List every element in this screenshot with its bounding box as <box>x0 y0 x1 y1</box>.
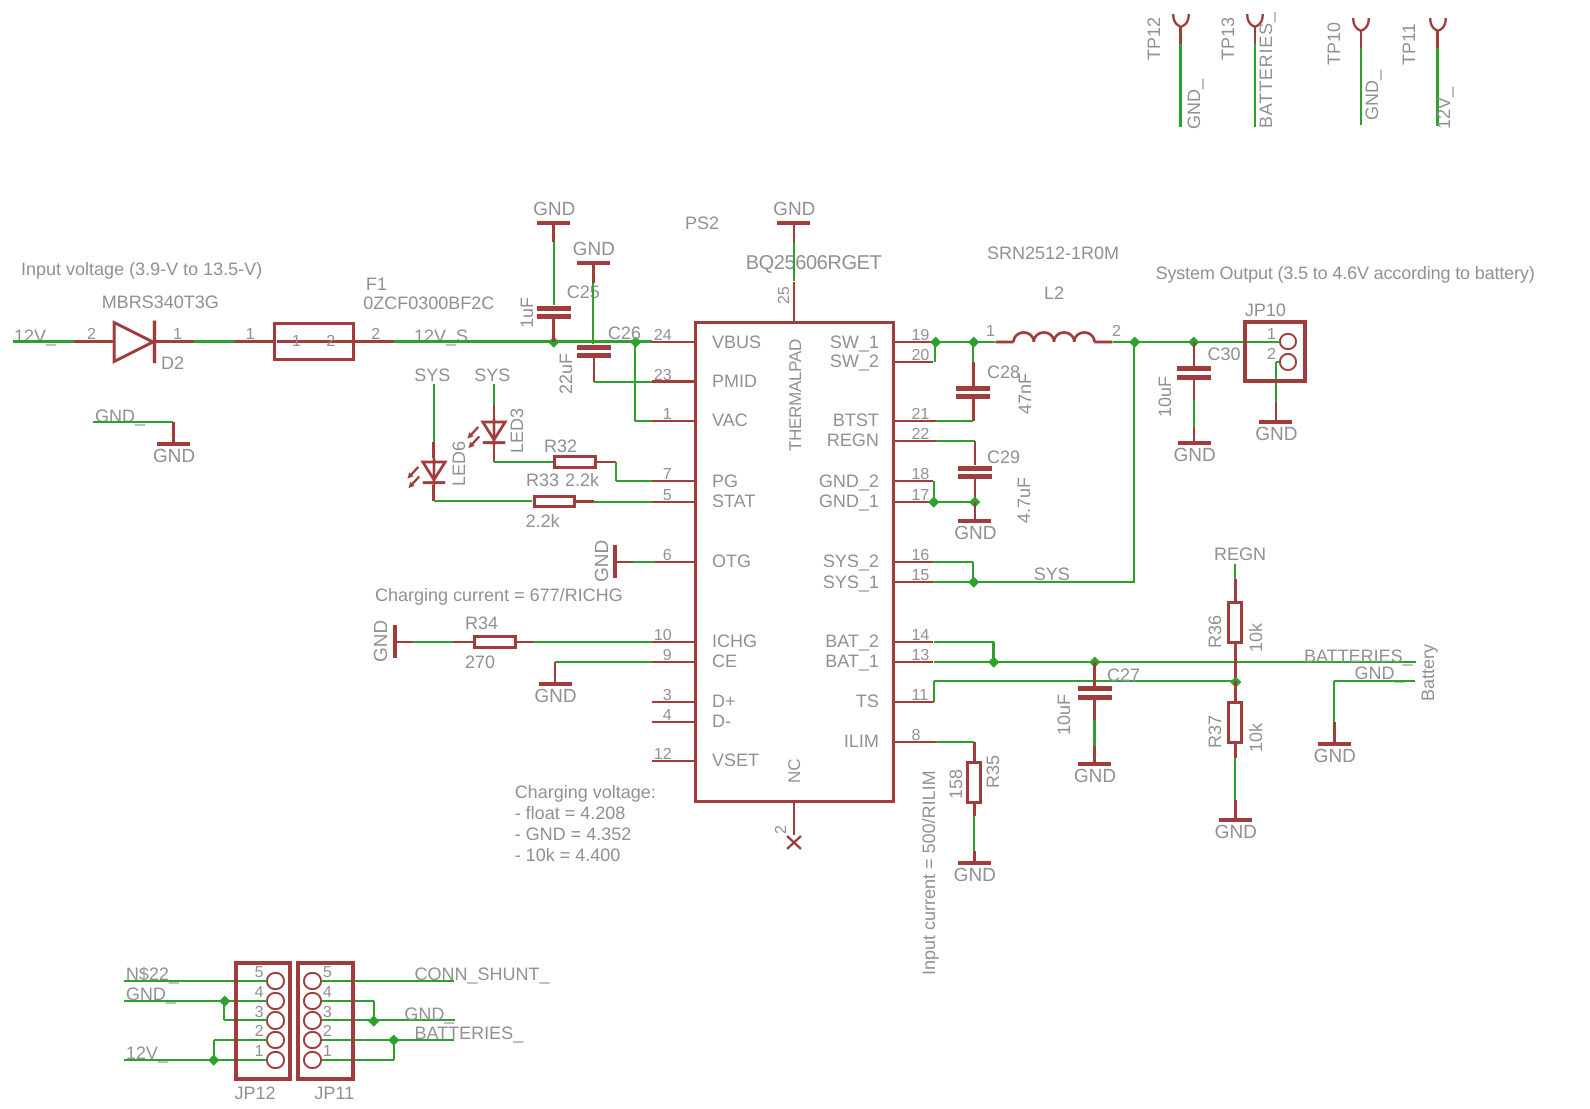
wire <box>13 340 74 342</box>
wire <box>434 500 533 502</box>
pin number 20 <box>912 348 930 364</box>
junction <box>929 497 940 508</box>
wire pin 3 stub <box>652 701 694 704</box>
wire PG <box>616 480 652 482</box>
pin number 8 <box>912 728 921 744</box>
pin name PG <box>712 472 738 490</box>
label R32 <box>544 437 577 455</box>
label C29 <box>987 448 1020 466</box>
resistor R36 <box>1227 601 1243 644</box>
pin name GND_1 <box>819 492 879 510</box>
pin number 12 <box>654 747 672 763</box>
wire <box>973 341 995 343</box>
net label N$22_ <box>126 965 179 983</box>
wire 12V_S rail <box>394 340 652 342</box>
junction <box>389 1035 400 1046</box>
pin number 7 <box>663 467 672 483</box>
wire N$22_ <box>124 980 268 982</box>
pin 2 of JP11 <box>323 1024 332 1040</box>
wire <box>1333 681 1335 722</box>
wire <box>224 1019 267 1021</box>
wire <box>934 641 994 643</box>
wire <box>1275 362 1277 402</box>
wire pin 24 stub <box>652 341 694 344</box>
wire <box>1093 662 1096 686</box>
wire VAC riser <box>634 342 636 421</box>
pin name PMID <box>712 372 757 390</box>
wire <box>235 340 273 343</box>
label PS2 <box>685 214 719 232</box>
wire <box>793 242 795 282</box>
wire CE <box>555 661 652 663</box>
pin number 22 <box>912 427 930 443</box>
value 270 <box>465 653 495 671</box>
wire pin 4 stub <box>652 721 694 724</box>
label JP12 <box>235 1084 276 1102</box>
net label SYS <box>474 366 510 384</box>
net label REGN <box>1214 545 1266 563</box>
label L2 <box>1044 284 1064 302</box>
wire GND_ <box>374 1019 456 1021</box>
wire <box>1194 341 1279 343</box>
wire <box>493 384 495 405</box>
connector JP11 body <box>296 961 355 1081</box>
wire <box>1254 44 1256 128</box>
wire <box>1093 700 1096 721</box>
no-connect X <box>785 834 803 851</box>
wire pin 13 stub <box>895 661 934 664</box>
wire pin 21 stub <box>895 420 937 423</box>
wire <box>1234 579 1237 601</box>
wire <box>933 561 973 563</box>
pin 4 of JP12 <box>255 985 264 1001</box>
ground (inverted) at pin 25 <box>777 221 810 225</box>
wire <box>633 561 655 563</box>
ground <box>1333 722 1336 742</box>
wire pin 6 stub <box>655 561 694 564</box>
resistor R35 <box>966 761 982 804</box>
net label BATTERIES_ <box>1304 647 1413 665</box>
wire <box>992 642 994 662</box>
wire SYS riser <box>1133 342 1135 582</box>
ground <box>974 502 977 519</box>
note input current (rotated) <box>920 770 938 975</box>
pin number 18 <box>912 467 930 483</box>
pin number 9 <box>663 648 672 664</box>
note input voltage <box>21 260 262 278</box>
wire ICHG <box>534 641 652 643</box>
junction <box>988 656 999 667</box>
junction <box>968 577 979 588</box>
pin number 2 (rotated) <box>774 825 790 834</box>
label R33 <box>526 471 559 489</box>
ground <box>172 422 175 442</box>
wire pin 7 stub <box>652 480 694 483</box>
pin number 3 <box>663 688 672 704</box>
value 0ZCF0300BF2C <box>363 294 494 312</box>
value 2.2k <box>526 512 560 530</box>
wire <box>1436 48 1438 127</box>
note charging voltage <box>515 783 656 801</box>
capacitor C28 <box>956 386 990 391</box>
junction <box>1089 656 1100 667</box>
wire <box>973 742 976 761</box>
junction <box>1129 337 1140 348</box>
wire <box>933 481 935 502</box>
pin 1 of L2 <box>986 324 995 340</box>
wire <box>494 461 553 463</box>
label D2 <box>161 354 184 372</box>
wire pin 16 stub <box>895 561 934 564</box>
label R35 (rotated) <box>984 755 1002 788</box>
value 22uF (rotated) <box>557 353 575 394</box>
pin name TS <box>856 692 879 710</box>
resistor R34 <box>473 635 517 649</box>
wire TS <box>934 680 1236 682</box>
wire <box>433 384 435 442</box>
wire pin 25 stub <box>793 282 796 322</box>
wire <box>373 1001 375 1021</box>
net label GND_ <box>1355 664 1405 682</box>
pin number 21 <box>912 407 930 423</box>
pin name CE <box>712 652 737 670</box>
label NC (rotated) <box>786 758 803 783</box>
net label BATTERIES_ <box>415 1024 524 1042</box>
pin name BTST <box>833 411 879 429</box>
pin 2 label inside F1 <box>326 334 335 350</box>
net label GND_ <box>404 1005 454 1023</box>
wire <box>1095 661 1416 663</box>
pin name OTG <box>712 552 751 570</box>
label TP10 <box>1325 21 1343 64</box>
wire pin 5 stub <box>652 501 694 504</box>
wire <box>355 340 394 343</box>
wire pin 1 stub <box>652 420 694 423</box>
value 158 (rotated) <box>947 769 965 799</box>
junction <box>1189 337 1200 348</box>
wire <box>635 420 651 422</box>
capacitor C26 <box>577 345 611 350</box>
pin name REGN <box>827 431 879 449</box>
pin name D- <box>712 712 731 730</box>
wire pin 10 stub <box>652 641 694 644</box>
wire <box>597 461 616 464</box>
pin number 24 <box>654 328 672 344</box>
label LED3 (rotated) <box>508 407 526 452</box>
pin 1 of D2 <box>173 327 182 343</box>
testpoint TP12 <box>1171 13 1191 29</box>
junction <box>970 497 981 508</box>
wire <box>156 340 194 343</box>
label Battery (rotated) <box>1419 643 1437 700</box>
wire <box>936 341 973 343</box>
pin 3 of JP11 <box>323 1005 332 1021</box>
label C28 <box>987 363 1020 381</box>
wire <box>322 1019 374 1021</box>
pin number 17 <box>912 488 930 504</box>
pin number 25 (rotated) <box>777 286 793 304</box>
pin number 1 <box>663 407 672 423</box>
wire <box>972 362 975 386</box>
wire SYS <box>933 581 1135 583</box>
wire <box>593 358 596 382</box>
op-amp U1: IC PS2 BQ25606RGET body <box>694 321 895 803</box>
pin number 23 <box>654 368 672 384</box>
value SRN2512-1R0M <box>987 244 1119 262</box>
pin 3 of JP12 <box>255 1005 264 1021</box>
pin 1 of JP10 <box>1267 327 1276 343</box>
wire <box>194 340 235 342</box>
value 10uF (rotated) <box>1156 375 1174 416</box>
wire <box>974 479 977 502</box>
pin name STAT <box>712 492 755 510</box>
wire <box>413 641 453 643</box>
pin name VAC <box>712 411 748 429</box>
value 47nF (rotated) <box>1016 373 1034 414</box>
pin 2 of F1 <box>371 327 380 343</box>
wire <box>576 500 594 503</box>
capacitor C29 <box>958 466 992 471</box>
net label SYS <box>1034 565 1070 583</box>
junction <box>968 337 979 348</box>
testpoint TP13 <box>1245 13 1265 29</box>
wire <box>1134 341 1194 343</box>
wire <box>1179 44 1181 128</box>
resistor R33 <box>533 495 577 509</box>
ground (sideways) <box>393 625 397 658</box>
wire pin 15 stub <box>895 581 934 584</box>
ground <box>554 662 557 682</box>
value 1uF (rotated) <box>518 297 536 328</box>
pin 2 of JP12 <box>255 1024 264 1040</box>
wire <box>432 485 435 502</box>
wire <box>934 342 936 362</box>
pin 1 of JP11 <box>323 1044 332 1060</box>
note system output <box>1156 264 1535 282</box>
ground (inverted) <box>577 261 610 265</box>
wire <box>974 441 977 466</box>
pin name SYS_1 <box>823 573 879 591</box>
wire <box>74 340 114 343</box>
pin name SW_1 <box>830 333 879 351</box>
net label 12V_S <box>414 327 468 345</box>
wire pin 19 stub <box>895 341 937 344</box>
net label 12V_ <box>126 1044 168 1062</box>
pin 1 of JP12 <box>255 1044 264 1060</box>
pin name BAT_2 <box>825 632 879 650</box>
wire <box>93 421 174 423</box>
ground <box>1093 746 1096 762</box>
LED LED6 <box>406 458 450 494</box>
wire <box>213 1040 215 1060</box>
capacitor C30 <box>1177 366 1211 371</box>
junction <box>219 995 230 1006</box>
pin 1 of F1 <box>246 327 255 343</box>
wire 12V_ <box>124 1059 268 1061</box>
net label GND_ <box>95 407 145 425</box>
net label 12V_ <box>1435 87 1453 129</box>
connector JP10 body <box>1243 320 1307 383</box>
ground (sideways) <box>613 545 617 578</box>
wire <box>973 804 976 816</box>
junction <box>630 336 641 347</box>
diode D2 <box>112 318 158 366</box>
pin name ILIM <box>844 732 879 750</box>
wire <box>322 1039 394 1041</box>
label R37 (rotated) <box>1206 715 1224 748</box>
pin name BAT_1 <box>825 652 879 670</box>
wire <box>1113 341 1134 343</box>
label TP11 <box>1400 23 1418 65</box>
wire <box>1234 681 1237 701</box>
wire <box>933 681 935 702</box>
wire pin 17 stub <box>895 501 930 504</box>
pin number 19 <box>912 328 930 344</box>
wire pin 14 stub <box>895 641 934 644</box>
pin number 10 <box>654 628 672 644</box>
wire pin 8 stub <box>895 741 937 744</box>
label C25 <box>567 283 600 301</box>
wire pin 18 stub <box>895 480 934 483</box>
wire <box>615 462 617 481</box>
ground <box>973 851 976 861</box>
net label SYS <box>414 366 450 384</box>
label R34 <box>465 614 498 632</box>
pin 2 of JP10 <box>1267 347 1276 363</box>
pin 2 of L2 <box>1112 324 1121 340</box>
wire <box>322 1000 374 1002</box>
wire <box>553 242 555 306</box>
label LED6 (rotated) <box>450 440 468 485</box>
ground <box>1275 402 1278 420</box>
label JP11 <box>314 1084 354 1102</box>
wire <box>517 641 535 644</box>
wire <box>617 561 633 564</box>
wire PMID <box>594 381 652 383</box>
resistor R32 <box>553 455 597 469</box>
wire <box>973 816 975 851</box>
fuse F1 <box>273 322 355 362</box>
junction <box>209 1054 220 1065</box>
wire GND_ <box>124 1000 268 1002</box>
wire GND_ <box>1334 680 1415 682</box>
pin name SYS_2 <box>823 552 879 570</box>
resistor R37 <box>1227 701 1243 744</box>
label C26 <box>608 324 641 342</box>
wire CONN_SHUNT_ <box>322 980 453 982</box>
junction <box>1230 676 1241 687</box>
pin number 14 <box>912 628 930 644</box>
note charging current <box>375 586 623 604</box>
net label GND_ <box>1185 79 1203 129</box>
label JP10 <box>1245 301 1286 319</box>
label MBRS340T3G <box>102 293 219 311</box>
wire BATTERIES_ <box>394 1039 453 1041</box>
pin name ICHG <box>712 632 757 650</box>
testpoint TP11 <box>1428 17 1448 33</box>
pin 5 of JP11 <box>323 965 332 981</box>
pin number 6 <box>663 548 672 564</box>
net label GND_ <box>126 985 176 1003</box>
wire <box>1234 744 1237 758</box>
pin name VBUS <box>712 333 761 351</box>
LED LED3 <box>466 418 510 454</box>
pin 2 of D2 <box>87 327 96 343</box>
wire <box>1234 564 1236 579</box>
wire BATTERIES_ <box>934 661 1095 663</box>
pin number 11 <box>912 688 929 704</box>
wire <box>972 399 975 421</box>
wire BTST <box>936 420 973 422</box>
pin number 15 <box>912 568 930 584</box>
label R36 (rotated) <box>1206 615 1224 648</box>
wire pin 9 stub <box>652 661 694 664</box>
wire <box>1234 758 1236 800</box>
wire <box>493 445 496 462</box>
wire <box>1193 380 1196 400</box>
net label GND_ <box>1363 69 1381 119</box>
connector JP12 body <box>234 961 293 1081</box>
value 2.2k <box>565 471 599 489</box>
wire <box>1193 400 1195 427</box>
wire pin 22 stub <box>895 440 937 443</box>
net label CONN_SHUNT_ <box>415 965 550 983</box>
pin name GND_2 <box>819 472 879 490</box>
ground (inverted) <box>537 221 570 225</box>
label C30 <box>1208 345 1241 363</box>
wire <box>1193 342 1196 366</box>
pin number 16 <box>912 548 930 564</box>
ground <box>1234 800 1237 818</box>
junction <box>930 337 941 348</box>
wire pin 23 stub <box>652 380 694 383</box>
wire <box>223 1001 225 1021</box>
wire <box>972 342 974 362</box>
pin name D+ <box>712 692 736 710</box>
wire <box>432 442 435 458</box>
pin 1 label inside F1 <box>292 334 301 350</box>
wire <box>1234 644 1237 681</box>
label THERMALPAD (rotated) <box>787 339 804 451</box>
wire <box>1360 48 1362 126</box>
value BQ25606RGET <box>746 253 882 273</box>
pin 4 of JP11 <box>323 985 332 1001</box>
pin number 4 <box>663 708 672 724</box>
wire <box>1093 720 1095 746</box>
label TP12 <box>1145 17 1163 60</box>
net label BATTERIES_ <box>1257 11 1275 128</box>
testpoint TP10 <box>1351 17 1371 33</box>
wire <box>936 741 974 743</box>
pin number 13 <box>912 648 930 664</box>
pin NC stub <box>793 803 796 836</box>
pin name VSET <box>712 751 759 769</box>
pin number 5 <box>663 488 672 504</box>
wire <box>552 319 555 342</box>
wire pin 20 stub <box>895 361 934 364</box>
net label 12V_ <box>14 327 56 345</box>
ground <box>1193 427 1196 441</box>
pin name SW_2 <box>830 352 879 370</box>
wire <box>397 641 414 644</box>
label C27 <box>1107 666 1140 684</box>
value 10k (rotated) <box>1247 622 1265 651</box>
wire <box>592 283 594 345</box>
wire REGN <box>936 440 975 442</box>
wire <box>493 405 496 419</box>
value 4.7uF (rotated) <box>1015 477 1033 523</box>
wire <box>214 1039 267 1041</box>
